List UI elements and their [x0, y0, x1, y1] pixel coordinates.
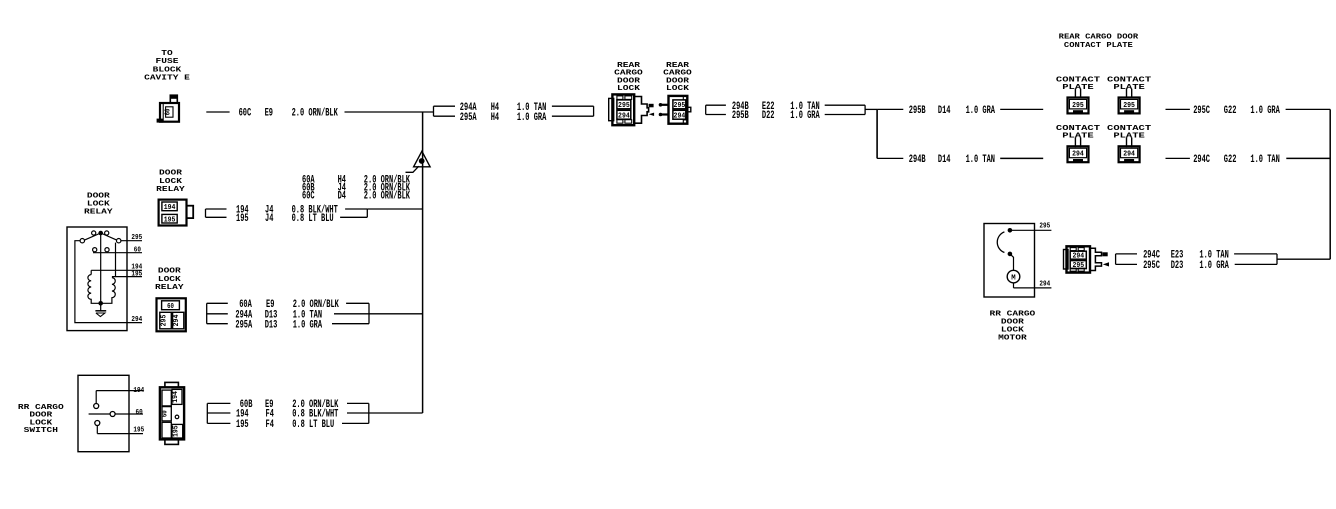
svg-text:195: 195 — [131, 271, 142, 279]
wire label 295B D22 1.0 GRA — [732, 110, 820, 122]
svg-text:PLATE: PLATE — [1062, 133, 1094, 141]
svg-text:194: 194 — [164, 204, 176, 212]
svg-text:1.0 GRA: 1.0 GRA — [293, 319, 323, 331]
svg-text:1.0 TAN: 1.0 TAN — [1250, 154, 1279, 166]
arrow marker at motor connector — [1103, 262, 1109, 266]
svg-text:295: 295 — [1072, 262, 1084, 270]
svg-text:294: 294 — [1072, 253, 1084, 261]
relay K1 center wire from pivot to coil junction — [100, 233, 102, 303]
wire 294C to bus 3 — [1286, 157, 1330, 159]
svg-text:295A: 295A — [460, 112, 477, 124]
wire 295C to bus 3 — [1286, 108, 1331, 110]
svg-text:0.8 LT BLU: 0.8 LT BLU — [292, 213, 334, 225]
relay K1 contact circles top row — [92, 231, 109, 235]
svg-text:D4: D4 — [338, 191, 347, 203]
svg-text:294C: 294C — [1193, 154, 1210, 166]
contact plate CP2 label — [1107, 77, 1152, 92]
connector: door lock relay cavity 60/295/294 — [157, 298, 186, 331]
svg-text:294: 294 — [1039, 280, 1050, 288]
relay K1 switch arm right — [101, 233, 117, 240]
wire label 295C D23 1.0 GRA — [1143, 260, 1229, 272]
splice wire list 60A H4 2.0 ORN/BLK — [302, 174, 410, 186]
svg-text:1.0 GRA: 1.0 GRA — [790, 110, 820, 122]
svg-text:DOOR: DOOR — [159, 170, 182, 178]
motor M1 pin 294 wire — [1014, 283, 1052, 288]
svg-text:D14: D14 — [938, 105, 951, 117]
svg-text:1.0 GRA: 1.0 GRA — [517, 112, 547, 124]
svg-text:PLATE: PLATE — [1113, 84, 1145, 92]
motor M1 terminal 295 junction — [1008, 228, 1013, 233]
motor M1 wire to motor — [1010, 254, 1014, 270]
svg-text:D14: D14 — [938, 154, 951, 166]
wire 294C stub after contact plates — [1166, 157, 1190, 159]
wire 294A/295A closing bracket — [552, 106, 594, 116]
svg-text:LOCK: LOCK — [159, 178, 182, 186]
svg-text:295B: 295B — [732, 110, 749, 122]
contact plate CP2 (295, right) — [1119, 89, 1140, 114]
relay K1 pin 195 wire from right coil — [112, 276, 142, 278]
svg-text:D23: D23 — [1171, 260, 1184, 272]
node: TO FUSE BLOCK CAVITY E label — [144, 50, 190, 83]
svg-text:295: 295 — [161, 315, 169, 327]
motor M1: rr cargo door lock motor box — [984, 224, 1035, 298]
contact plate CP3 (294, left) — [1068, 138, 1089, 163]
splice wire list 60C D4 2.0 ORN/BLK — [302, 191, 410, 203]
wire label 295C G22 1.0 GRA — [1193, 105, 1280, 117]
contact plate CP4 (294, right) — [1119, 138, 1140, 163]
svg-text:1.0 TAN: 1.0 TAN — [966, 154, 995, 166]
svg-text:2.0 ORN/BLK: 2.0 ORN/BLK — [364, 191, 411, 203]
switch SW1 contact 195 — [95, 421, 143, 434]
svg-text:REAR CARGO DOOR: REAR CARGO DOOR — [1059, 34, 1139, 42]
svg-text:294: 294 — [1123, 151, 1135, 159]
connector: door lock relay cavity 194/195 — [159, 200, 194, 226]
relay K1 pin 294 wire from left contact — [75, 241, 142, 323]
relay K1: door lock relay box — [67, 227, 127, 331]
relay K1 pin 194 wire from left coil — [91, 270, 142, 274]
wire 60B/194/195 merge bracket to bus — [342, 403, 423, 423]
svg-text:CONTACT PLATE: CONTACT PLATE — [1064, 42, 1133, 50]
wire label 60B E9 2.0 ORN/BLK — [240, 399, 339, 411]
contact plate CP1 label — [1056, 77, 1101, 92]
svg-text:294: 294 — [1072, 151, 1084, 159]
svg-text:295C: 295C — [1193, 105, 1210, 117]
svg-text:1.0 GRA: 1.0 GRA — [966, 105, 996, 117]
svg-text:194: 194 — [172, 391, 180, 403]
svg-text:0.8 LT BLU: 0.8 LT BLU — [292, 419, 334, 431]
contact plate CP3 label — [1056, 125, 1101, 140]
svg-text:CAVITY E: CAVITY E — [144, 75, 190, 83]
svg-text:RELAY: RELAY — [84, 208, 113, 216]
wire label 60C E9 2.0 ORN/BLK — [239, 108, 339, 120]
wire label 195 F4 0.8 LT BLU — [236, 419, 334, 431]
svg-text:295: 295 — [1123, 102, 1135, 110]
wire 60A/294A/295A merge bracket to bus — [332, 303, 423, 323]
relay K1 coil L2 (right) — [101, 278, 116, 304]
svg-text:1.0 GRA: 1.0 GRA — [1250, 105, 1280, 117]
switch SW1 contact 194 — [94, 391, 143, 409]
svg-text:D22: D22 — [762, 110, 775, 122]
node: DOOR LOCK RELAY label (above relay box) — [84, 193, 113, 217]
svg-text:LOCK: LOCK — [87, 201, 110, 209]
svg-text:PLATE: PLATE — [1062, 84, 1094, 92]
svg-text:1.0 GRA: 1.0 GRA — [1199, 260, 1229, 272]
svg-text:PLATE: PLATE — [1113, 133, 1145, 141]
relay K1 common pivot junction — [98, 231, 103, 236]
svg-text:194: 194 — [133, 387, 144, 395]
node: RR CARGO DOOR LOCK SWITCH label — [18, 404, 64, 435]
relay K1 contact circle left (294 side) — [80, 239, 84, 243]
connector: rr cargo door lock motor cavity — [1064, 246, 1108, 272]
wire label 60A E9 2.0 ORN/BLK — [239, 299, 339, 311]
bracket junction 294C/295C from motor connector — [1116, 254, 1137, 265]
svg-text:LOCK: LOCK — [158, 276, 181, 284]
svg-text:60: 60 — [162, 410, 170, 417]
svg-text:DOOR: DOOR — [158, 268, 181, 276]
wire label 195 J4 0.8 LT BLU — [236, 213, 334, 225]
relay K1 pin 60 wire — [93, 252, 142, 254]
bracket junction 294B/295B from connector — [706, 105, 726, 114]
svg-text:195: 195 — [172, 425, 180, 437]
relay K1 switch arm left — [84, 233, 101, 240]
relay K1 coil L1 (left) — [88, 275, 101, 304]
wire label 295A D13 1.0 GRA — [235, 319, 322, 331]
svg-text:294: 294 — [674, 112, 686, 120]
wire label 294A D13 1.0 TAN — [235, 309, 322, 321]
svg-text:LOCK: LOCK — [1001, 327, 1024, 335]
svg-text:LOCK: LOCK — [617, 85, 640, 93]
svg-text:195: 195 — [236, 419, 249, 431]
ground G1 inside relay — [95, 303, 106, 316]
bracket for relay pins 194/195 — [206, 209, 227, 217]
node: REAR CARGO DOOR LOCK label (left) — [614, 62, 643, 93]
svg-text:G22: G22 — [1224, 105, 1237, 117]
wire branch 295B D14 stub — [877, 108, 903, 110]
svg-text:295: 295 — [1072, 102, 1084, 110]
wire label 294C G22 1.0 TAN — [1193, 154, 1280, 166]
svg-text:60: 60 — [134, 246, 141, 254]
wire label 294B D14 1.0 TAN — [909, 154, 995, 166]
svg-text:RELAY: RELAY — [155, 284, 184, 292]
node: RR CARGO DOOR LOCK MOTOR label — [990, 311, 1036, 343]
wire label 294C E23 1.0 TAN — [1143, 250, 1229, 262]
svg-text:295B: 295B — [909, 105, 926, 117]
svg-text:60C: 60C — [239, 108, 252, 120]
svg-text:60C: 60C — [302, 191, 315, 203]
svg-text:DOOR: DOOR — [87, 193, 110, 201]
svg-text:BLOCK: BLOCK — [153, 66, 182, 74]
wire 294C/295C closing bracket to bus 3 — [1234, 254, 1330, 265]
wire 194/195 merge bracket to bus — [340, 209, 423, 217]
svg-text:SWITCH: SWITCH — [24, 427, 59, 435]
vertical bus wire 3 at right edge — [1329, 109, 1331, 259]
svg-text:DOOR: DOOR — [29, 412, 52, 420]
relay K1 pin 295 wire — [121, 240, 142, 242]
node: REAR CARGO DOOR LOCK label (right) — [663, 62, 692, 93]
svg-text:RR CARGO: RR CARGO — [990, 311, 1036, 319]
svg-text:195: 195 — [236, 213, 249, 225]
splice S symbol (triangle with dot) — [406, 151, 431, 172]
relay K1 coil common junction — [98, 301, 103, 306]
svg-text:TO: TO — [161, 50, 173, 58]
svg-text:60: 60 — [164, 109, 172, 116]
svg-text:294: 294 — [173, 315, 181, 327]
svg-text:J4: J4 — [265, 213, 274, 225]
relay K1 contact circles second row — [93, 248, 110, 252]
svg-text:LOCK: LOCK — [666, 85, 689, 93]
wire 295C stub after contact plates — [1166, 108, 1190, 110]
vertical bus wire at splice S — [422, 112, 424, 413]
wire label 295A H4 1.0 GRA — [460, 112, 547, 124]
arrow marker between connector halves — [649, 113, 654, 116]
svg-text:295A: 295A — [235, 319, 252, 331]
svg-text:195: 195 — [164, 217, 176, 225]
wire label 294A H4 1.0 TAN — [460, 102, 547, 114]
svg-text:MOTOR: MOTOR — [998, 335, 1027, 343]
relay K1 contact circle right (295 side) — [117, 239, 121, 243]
contact plate CP1 (295, left) — [1068, 89, 1089, 114]
svg-text:RELAY: RELAY — [156, 186, 185, 194]
wire 60C to splice bus — [345, 111, 434, 113]
motor M1 arc contact — [997, 232, 1004, 253]
svg-text:295: 295 — [674, 102, 686, 110]
splice wire list 60B J4 2.0 ORN/BLK — [302, 183, 410, 195]
connector: rear cargo door lock (female half) — [659, 96, 691, 124]
bracket junction 294A/295A from bus — [434, 106, 456, 116]
svg-text:195: 195 — [133, 426, 144, 434]
node: REAR CARGO DOOR CONTACT PLATE header — [1059, 34, 1139, 51]
svg-text:FUSE: FUSE — [156, 58, 179, 66]
svg-text:H4: H4 — [491, 112, 500, 124]
svg-text:60: 60 — [167, 303, 174, 311]
switch SW1 pole 60 — [89, 412, 143, 417]
connector: rr cargo door lock switch cavity — [160, 382, 184, 444]
svg-text:294: 294 — [131, 316, 142, 324]
motor M1 pin 295 wire — [1010, 229, 1052, 231]
svg-text:F4: F4 — [266, 419, 275, 431]
vertical bus wire 2 — [876, 109, 878, 158]
svg-text:LOCK: LOCK — [29, 419, 52, 427]
wire branch 294B D14 stub — [877, 157, 903, 159]
bracket for switch pins 60B/194/195 — [207, 403, 230, 423]
wire label 295B D14 1.0 GRA — [909, 105, 996, 117]
svg-text:295: 295 — [131, 234, 142, 242]
connector: rear cargo door lock (male half) — [609, 94, 654, 125]
wire 294B to contact plates — [1000, 157, 1043, 159]
svg-text:2.0 ORN/BLK: 2.0 ORN/BLK — [292, 108, 339, 120]
node: DOOR LOCK RELAY label (lower) — [155, 268, 184, 293]
wire 60C stub from fuse block — [206, 111, 229, 113]
svg-text:M: M — [1011, 275, 1015, 283]
motor M1 terminal 294 junction — [1008, 252, 1013, 257]
motor M1 symbol circle — [1007, 270, 1020, 283]
svg-text:D13: D13 — [265, 319, 278, 331]
wire 294B/295B closing bracket to bus 2 — [825, 105, 877, 114]
svg-text:G22: G22 — [1224, 154, 1237, 166]
svg-text:60: 60 — [136, 409, 143, 417]
node: DOOR LOCK RELAY label (upper) — [156, 170, 185, 195]
wire label 294B E22 1.0 TAN — [732, 101, 820, 113]
switch SW1: rr cargo door lock switch box — [78, 375, 129, 451]
svg-text:295: 295 — [618, 102, 630, 110]
contact plate CP4 label — [1107, 125, 1152, 140]
svg-text:DOOR: DOOR — [1001, 319, 1024, 327]
svg-text:294: 294 — [618, 112, 630, 120]
wire label 194 F4 0.8 BLK/WHT — [236, 409, 339, 421]
svg-text:294B: 294B — [909, 154, 926, 166]
wire label 194 J4 0.8 BLK/WHT — [236, 205, 338, 217]
svg-text:RR CARGO: RR CARGO — [18, 404, 64, 412]
svg-text:E9: E9 — [265, 108, 273, 120]
connector: fuse block cavity E — [157, 95, 179, 122]
wire 295B to contact plates — [1000, 108, 1043, 110]
relay K1 wire right contact down — [115, 243, 117, 277]
bracket for relay pins 60A/294A/295A — [207, 303, 228, 323]
svg-text:295C: 295C — [1143, 260, 1160, 272]
svg-text:295: 295 — [1039, 223, 1050, 231]
